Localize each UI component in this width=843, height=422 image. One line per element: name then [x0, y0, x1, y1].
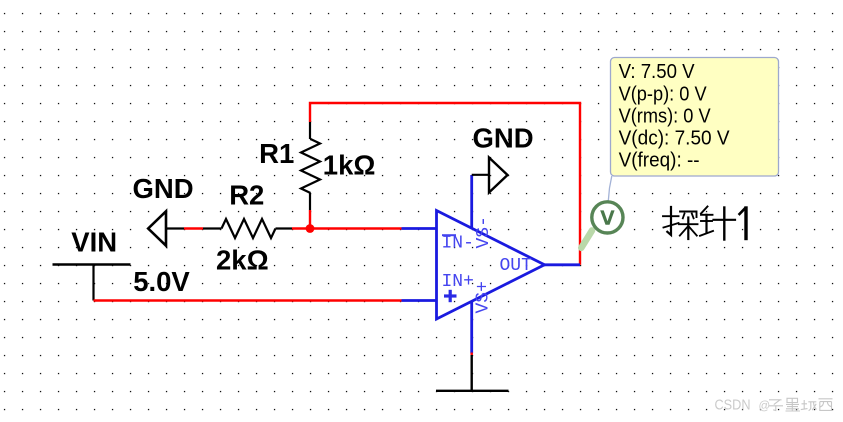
ground (below op-amp) — [436, 355, 509, 391]
voltage source VIN — [53, 265, 131, 301]
svg-text:V(rms): 0 V: V(rms): 0 V — [619, 104, 711, 127]
svg-text:GND: GND — [133, 173, 194, 204]
pin IN- — [402, 229, 474, 254]
probe leader line — [608, 176, 612, 201]
watermark CSDN @子墨城西 — [715, 397, 833, 413]
svg-text:R2: R2 — [229, 180, 264, 211]
svg-text:1kΩ: 1kΩ — [323, 150, 376, 181]
wire: feedback R1 top to op-amp output — [310, 103, 580, 265]
svg-text:@: @ — [759, 400, 771, 412]
wire: junction to op-amp IN- — [310, 227, 402, 229]
pin IN+ — [402, 272, 474, 302]
pin OUT — [500, 256, 581, 276]
svg-text:CSDN: CSDN — [715, 397, 751, 413]
pin VS- (top) — [472, 175, 494, 249]
svg-text:V(dc): 7.50 V: V(dc): 7.50 V — [619, 127, 730, 150]
ground GND (top of op-amp) — [472, 158, 508, 193]
label 探针1 (probe name, drawn glyphs) — [663, 207, 746, 240]
junction node (R1/R2/IN-) — [306, 224, 315, 233]
svg-text:V(freq): --: V(freq): -- — [619, 149, 700, 172]
resistor R1 — [301, 122, 320, 210]
probe tooltip — [611, 58, 779, 177]
wire: VS+ to ground (red stub) — [471, 353, 473, 356]
ground GND (left) — [148, 211, 184, 245]
svg-text:IN-: IN- — [442, 234, 474, 254]
svg-text:VS+: VS+ — [474, 281, 494, 313]
wire: left GND to R2 — [184, 227, 203, 229]
wire: R1 bottom to junction — [309, 210, 311, 229]
wire: VIN to op-amp IN+ — [94, 299, 402, 301]
op-amp U1 body — [437, 211, 545, 320]
svg-text:5.0V: 5.0V — [133, 266, 190, 297]
svg-text:VIN: VIN — [71, 227, 117, 258]
probe 探针1 (V probe) — [581, 202, 623, 248]
svg-text:IN+: IN+ — [442, 272, 474, 292]
svg-text:OUT: OUT — [500, 256, 533, 276]
wire: R2 to junction — [292, 227, 310, 229]
svg-text:GND: GND — [473, 122, 534, 153]
pin VS+ (bottom) — [472, 281, 494, 353]
svg-text:VS-: VS- — [474, 216, 494, 248]
svg-text:V(p-p): 0 V: V(p-p): 0 V — [619, 82, 707, 105]
svg-text:2kΩ: 2kΩ — [216, 245, 269, 276]
resistor R2 — [203, 219, 292, 238]
svg-text:V: 7.50 V: V: 7.50 V — [619, 60, 695, 83]
svg-text:R1: R1 — [259, 138, 294, 169]
